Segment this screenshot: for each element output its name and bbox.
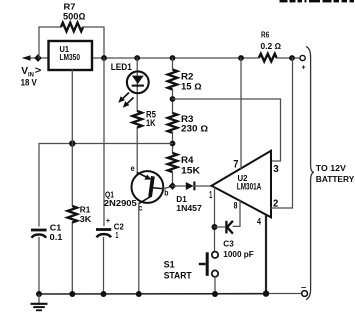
svg-text:R1: R1 — [80, 205, 91, 215]
node: U1 ADJ junction — [69, 140, 75, 146]
svg-text:4: 4 — [257, 216, 262, 226]
node: U1 output junction — [101, 55, 107, 61]
svg-text:START: START — [164, 270, 192, 280]
label pin numbers — [209, 159, 279, 227]
svg-text:15 Ω: 15 Ω — [181, 81, 202, 91]
capacitor C1 — [31, 230, 47, 238]
svg-text:3K: 3K — [80, 214, 92, 224]
resistor R4 — [168, 153, 177, 172]
svg-text:S1: S1 — [164, 259, 175, 269]
resistor R3 — [168, 113, 177, 133]
svg-text:1: 1 — [115, 230, 118, 240]
svg-text:1N457: 1N457 — [176, 204, 202, 213]
wire: U1 ADJ pin — [71, 70, 73, 294]
LED1 emission arrows — [118, 93, 133, 108]
label R6 0.2ohm — [261, 31, 282, 51]
wire: op-amp pin2 to battery sense — [271, 58, 293, 208]
wire: C2 column — [103, 58, 106, 294]
label R3 230ohm — [181, 114, 208, 134]
svg-text:2N2905: 2N2905 — [104, 199, 138, 208]
svg-text:3: 3 — [273, 164, 279, 175]
label e b c pins — [131, 164, 169, 213]
wire: main VOUT rail y=58 — [24, 57, 300, 59]
wire: D1 to op-amp — [194, 185, 212, 187]
resistor R5 — [133, 111, 142, 128]
label C3 1000pF — [223, 239, 254, 259]
label R5 1K — [146, 109, 156, 128]
svg-text:C1: C1 — [50, 223, 62, 233]
svg-text:R7: R7 — [64, 2, 76, 12]
regulator U1 LM350 — [49, 41, 93, 70]
svg-text:LM301A: LM301A — [237, 181, 262, 191]
node: R2/R3 junction — [170, 96, 176, 102]
svg-text:+: + — [106, 216, 111, 225]
label Vin 18V — [21, 65, 42, 87]
svg-text:BATTERY: BATTERY — [316, 174, 355, 184]
node: C3 junction — [212, 224, 218, 230]
svg-text:−: − — [301, 283, 307, 292]
switch S1 — [199, 252, 218, 277]
wire: node to D1 — [173, 185, 186, 187]
node: base/R4/D1 junction — [169, 182, 177, 190]
label R4 15K — [181, 155, 201, 175]
label TO 12V BATTERY — [316, 163, 355, 184]
svg-text:8: 8 — [234, 201, 238, 211]
svg-text:R2: R2 — [181, 72, 194, 82]
node: ground rail junctions — [36, 290, 269, 297]
svg-text:TO 12V: TO 12V — [316, 163, 346, 173]
wire: op-amp V+ pin7 — [240, 58, 242, 168]
resistor R1 — [68, 206, 77, 223]
svg-text:+: + — [302, 64, 306, 71]
label C2 1 — [114, 222, 124, 241]
svg-text:LED1: LED1 — [111, 62, 132, 72]
svg-text:7: 7 — [233, 159, 238, 171]
svg-text:0.1: 0.1 — [50, 232, 63, 242]
wire: divider to op-amp pin3 — [173, 99, 281, 161]
terminal: battery - — [301, 283, 308, 297]
wire: op-amp pin1 down — [214, 188, 216, 252]
svg-text:230 Ω: 230 Ω — [181, 124, 208, 134]
node: R6 right junction — [289, 55, 295, 61]
label S1 START — [164, 259, 192, 280]
svg-text:b: b — [164, 189, 168, 198]
capacitor C2 — [96, 216, 111, 238]
svg-text:0.2 Ω: 0.2 Ω — [261, 42, 282, 51]
LED1 — [127, 71, 149, 93]
brace to battery — [306, 47, 314, 300]
wire: Q1 base to node — [163, 186, 173, 189]
label C1 0.1 — [50, 223, 63, 243]
label R1 3K — [80, 205, 92, 225]
label Q1 2N2905 — [104, 190, 138, 207]
resistor R6 — [259, 54, 277, 62]
resistor R2 — [168, 70, 177, 90]
resistor R7 — [61, 23, 83, 32]
op-amp U2 LM301A — [212, 151, 272, 218]
wire: op-amp pin4 to ground rail — [265, 215, 267, 294]
wire: LED / R5 / Q1 emitter column — [136, 58, 138, 174]
node: op-amp V+ / R6 junction — [238, 55, 244, 61]
node: Vin junction — [34, 54, 42, 62]
Vin input arrow — [22, 55, 31, 61]
label D1 1N457 — [176, 195, 202, 213]
svg-text:15K: 15K — [181, 165, 201, 175]
svg-text:D1: D1 — [176, 195, 187, 204]
svg-text:1K: 1K — [146, 118, 156, 128]
node: LED column junction — [134, 55, 140, 61]
wire: ADJ line — [39, 144, 173, 295]
cropped title text fragments top right — [280, 0, 355, 2]
transistor Q1 — [132, 171, 164, 204]
svg-text:>: > — [35, 65, 42, 76]
svg-text:1000 pF: 1000 pF — [223, 249, 254, 259]
wire: node to C3 — [215, 226, 225, 228]
node: R3/R4 ADJ junction — [170, 141, 176, 147]
wire: R2 column top — [172, 58, 174, 113]
label LED1 — [111, 62, 132, 72]
wire: R4 to base node — [172, 172, 174, 186]
svg-text:LM350: LM350 — [60, 52, 81, 62]
svg-text:R3: R3 — [181, 114, 194, 124]
wire: R3 to R4 — [172, 133, 174, 153]
svg-text:C3: C3 — [223, 239, 234, 249]
diode D1 — [186, 182, 195, 191]
node: R2 column junction — [170, 55, 176, 61]
wire: R7 loop left riser — [39, 27, 61, 58]
terminal: battery + — [300, 55, 306, 71]
capacitor C3 — [226, 221, 233, 234]
ground — [31, 294, 48, 310]
label R2 15ohm — [181, 72, 202, 92]
wire: op-amp pin8 to C3 — [233, 201, 240, 227]
svg-text:500Ω: 500Ω — [63, 11, 86, 21]
wire: R7 loop right riser — [83, 27, 104, 58]
svg-text:18 V: 18 V — [21, 78, 38, 88]
wire: Q1 collector to ground rail — [138, 204, 140, 295]
wire: ground rail — [39, 293, 302, 296]
wire: S1 to ground rail — [214, 277, 216, 294]
svg-text:R4: R4 — [181, 155, 194, 165]
svg-text:R6: R6 — [261, 31, 270, 40]
label R7 500ohm — [63, 2, 86, 22]
svg-text:e: e — [131, 164, 135, 173]
svg-text:1: 1 — [209, 189, 212, 201]
